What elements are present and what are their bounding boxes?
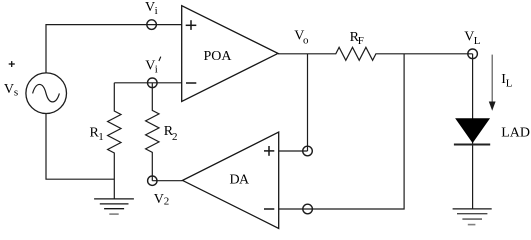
svg-text:V: V bbox=[145, 0, 155, 15]
svg-text:2: 2 bbox=[164, 196, 170, 208]
svg-text:POA: POA bbox=[204, 49, 233, 64]
svg-text:L: L bbox=[506, 78, 513, 90]
svg-text:V: V bbox=[154, 192, 164, 207]
svg-text:1: 1 bbox=[98, 131, 104, 143]
svg-text:V: V bbox=[4, 82, 14, 97]
svg-text:F: F bbox=[358, 35, 364, 47]
svg-text:s: s bbox=[14, 86, 18, 98]
svg-text:i: i bbox=[155, 64, 158, 76]
svg-text:V: V bbox=[464, 30, 474, 45]
svg-text:o: o bbox=[303, 34, 309, 46]
svg-text:LAD: LAD bbox=[501, 125, 530, 140]
svg-text:i: i bbox=[155, 5, 158, 17]
svg-text:2: 2 bbox=[172, 131, 178, 143]
svg-text:V: V bbox=[145, 59, 155, 74]
svg-text:L: L bbox=[474, 35, 481, 47]
svg-text:DA: DA bbox=[230, 173, 251, 188]
